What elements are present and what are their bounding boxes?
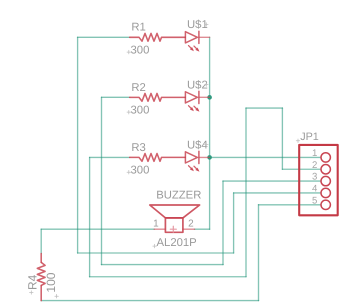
- svg-text:R3: R3: [131, 142, 145, 154]
- svg-text:4: 4: [312, 183, 318, 194]
- R4 name origin cross: [30, 291, 34, 295]
- R1 value origin cross: [127, 50, 131, 54]
- wire net N5 pin5 horizontal: [259, 204, 321, 206]
- JP1 pin 5 circle: [321, 200, 330, 209]
- LED U$4 cathode bar: [198, 151, 200, 163]
- svg-text:U$2: U$2: [187, 79, 208, 91]
- svg-text:300: 300: [131, 45, 150, 57]
- svg-text:1: 1: [312, 148, 317, 159]
- LED U$4 emission arrow b: [194, 166, 198, 170]
- wire net N2 left segment row2: [102, 96, 130, 98]
- buzzer pin 1 lead: [154, 228, 165, 230]
- wire net N2 pin3 horizontal: [223, 180, 320, 182]
- LED U$2 triangle: [185, 92, 197, 103]
- LED U$4 cathode lead: [199, 156, 210, 158]
- svg-text:1: 1: [153, 218, 159, 229]
- svg-text:5: 5: [312, 195, 317, 206]
- svg-text:R1: R1: [131, 22, 145, 34]
- JP1 pin 1 circle: [321, 153, 330, 162]
- wire net N3 vertical up tall: [245, 108, 247, 277]
- wire net N3 left segment row3: [90, 156, 130, 158]
- buzzer plus origin mark: [170, 226, 176, 232]
- wire net N4 buzzer pin1 horizontal: [41, 228, 154, 230]
- resistor R4 zigzag: [37, 262, 45, 285]
- svg-text:R4: R4: [26, 274, 40, 290]
- svg-text:R2: R2: [131, 82, 145, 94]
- JP1 pin 3 circle: [321, 176, 330, 185]
- LED U$1 triangle: [185, 32, 197, 43]
- JP1 pin 2 circle: [321, 165, 330, 174]
- LED U$1 emission arrow b: [194, 46, 198, 50]
- AL201P origin cross: [153, 244, 157, 248]
- svg-text:3: 3: [312, 172, 317, 183]
- wire net N3 pin2 horizontal: [282, 168, 320, 170]
- LED U$2 cathode lead: [199, 96, 210, 98]
- LED U$2 cathode bar: [198, 91, 200, 103]
- resistor R4 top lead: [40, 254, 42, 263]
- wire net COM pin1 horizontal: [210, 156, 321, 158]
- R4 value origin cross: [55, 294, 59, 298]
- wire net N1 bottom horizontal: [78, 252, 234, 254]
- resistor R1: [130, 33, 186, 41]
- svg-text:JP1: JP1: [300, 131, 319, 143]
- U$2 origin cross: [205, 83, 209, 87]
- wire net COM cathode column: [209, 37, 211, 229]
- JP1 origin cross: [296, 139, 300, 143]
- buzzer SG1 horn: [150, 205, 200, 218]
- buzzer pin 2 lead: [183, 228, 195, 230]
- resistor R2: [130, 93, 186, 101]
- wire net N3 vertical down to pin2: [281, 108, 283, 169]
- node junction dot row2: [207, 95, 212, 100]
- LED U$1 emission arrow a: [189, 46, 193, 50]
- wire net N1 left segment row1: [78, 36, 130, 38]
- wire net N5 vertical up to pin5: [258, 205, 260, 301]
- wire net N3 bottom horizontal: [90, 276, 246, 278]
- LED U$1 cathode lead: [199, 36, 210, 38]
- svg-text:2: 2: [312, 160, 317, 171]
- wire net N5 bottom long horizontal: [41, 300, 258, 302]
- wire net N1 vertical up to pin4: [233, 193, 235, 253]
- resistor R3: [130, 154, 186, 162]
- svg-text:2: 2: [188, 218, 194, 229]
- node junction dot row3: [207, 155, 212, 160]
- resistor R4 bottom lead: [40, 285, 42, 300]
- U$4 origin cross: [205, 143, 209, 147]
- LED U$4 triangle: [185, 152, 197, 163]
- LED U$4 emission arrow a: [189, 166, 193, 170]
- connector JP1 box: [299, 145, 338, 215]
- wire net N1 vertical left: [77, 37, 79, 253]
- U$1 origin cross: [205, 23, 209, 27]
- LED U$2 emission arrow a: [189, 106, 193, 110]
- LED U$1 cathode bar: [198, 31, 200, 43]
- wire net N3 vertical left: [89, 157, 91, 276]
- svg-text:300: 300: [131, 105, 150, 117]
- JP1 pin 4 circle: [321, 188, 330, 197]
- wire net N4 vertical to R4 top: [40, 229, 42, 253]
- R3 value origin cross: [127, 170, 131, 174]
- wire net COM buzzer pin2 segment: [195, 228, 210, 230]
- wire net N2 vertical left: [101, 97, 103, 264]
- wire net N2 bottom horizontal: [102, 264, 224, 266]
- svg-text:BUZZER: BUZZER: [156, 190, 201, 202]
- wire net N2 vertical up to pin3: [222, 181, 224, 265]
- svg-text:U$4: U$4: [187, 139, 208, 151]
- svg-text:U$1: U$1: [187, 19, 208, 31]
- wire net N1 pin4 horizontal: [234, 192, 321, 194]
- svg-text:AL201P: AL201P: [157, 237, 197, 249]
- svg-text:300: 300: [131, 165, 150, 177]
- buzzer SG1 body rectangle: [165, 218, 183, 232]
- svg-text:100: 100: [44, 272, 58, 292]
- wire net N3 top jog horizontal: [246, 107, 282, 109]
- R2 value origin cross: [127, 110, 131, 114]
- LED U$2 emission arrow b: [194, 106, 198, 110]
